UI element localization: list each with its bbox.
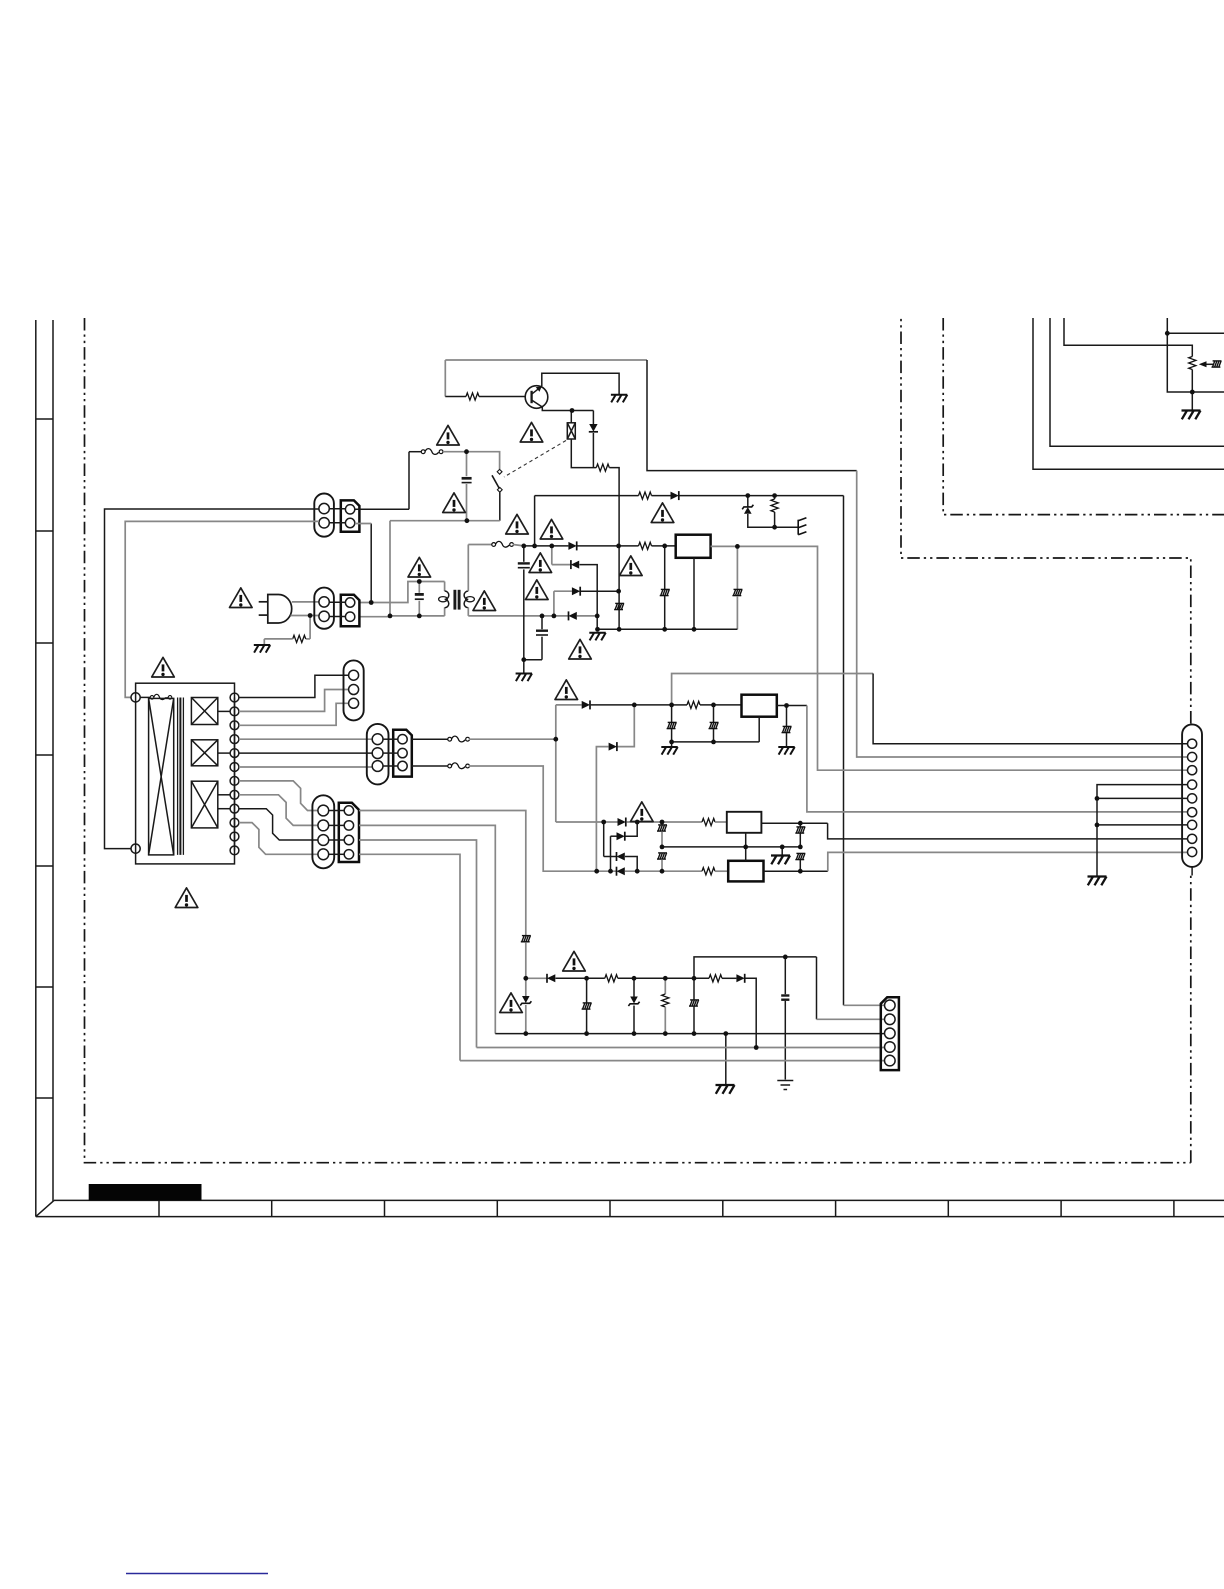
wire D3 to node [591, 704, 672, 706]
CN5 pin4 out run [359, 854, 460, 1060]
resistor RV1 top lead [774, 496, 776, 499]
T1 pin6 wire to CN4 [239, 766, 372, 768]
left border tick 6 [36, 986, 53, 988]
bypass drop 2 [713, 705, 715, 722]
T1 pin1 wire to CN3 [239, 675, 349, 697]
run to CN7 pin2 [857, 471, 1188, 757]
IC2 (regulator box) [742, 695, 777, 717]
det row wire a [526, 977, 547, 979]
CN7 bottom stub [1191, 867, 1193, 876]
bus wire to right page edge 2 [1050, 318, 1224, 446]
connector CN2 plug (2-pin oval) [314, 588, 334, 629]
T1 pin3 wire to CN3 [239, 703, 349, 725]
row1 wire b [627, 821, 703, 823]
wire into bottom connector pin1 [844, 1004, 885, 1006]
bypass chain top [661, 822, 663, 825]
x800 chain top [799, 823, 801, 826]
connector CN1 header [341, 500, 360, 531]
second boundary dash-dot [943, 318, 1224, 515]
CN5 pin 2 [318, 820, 329, 831]
junction dot [663, 1031, 668, 1036]
fuse F4 [448, 763, 470, 769]
IC1 ground lead [693, 558, 695, 630]
T1 pin 8 [230, 790, 239, 799]
AC live wire to choke [359, 582, 444, 603]
junction dot [616, 544, 621, 549]
wire to pin2 bottom [816, 957, 818, 1019]
H2 bottom lead [586, 1010, 588, 1034]
diode D13 [589, 424, 598, 432]
CN5 pin3 out run [359, 840, 477, 1048]
junction dot [711, 740, 716, 745]
AC bottom link wire [390, 520, 500, 522]
power switch S1 [492, 469, 502, 492]
junction dot [632, 1031, 637, 1036]
junction dot [745, 493, 750, 498]
wire to bridge node [609, 468, 619, 546]
transformer T1 outline [136, 683, 235, 864]
VR1 wiper arrowhead [1199, 361, 1207, 367]
warning symbol 4 [506, 514, 529, 534]
bypass drop lower [736, 596, 738, 629]
connector CN3 (3-pin oval) [344, 660, 364, 720]
CN6 pin 5 [885, 1055, 896, 1066]
switch-relay mechanical link (dashed) [504, 441, 566, 478]
junction dot [692, 1031, 697, 1036]
choke right top lead [467, 545, 469, 592]
row3 wire right [581, 590, 619, 592]
fuse lead [140, 696, 152, 698]
wire IC1 out to pin3 drop [737, 546, 1187, 770]
junction dot [798, 821, 803, 826]
C5 bottom lead [784, 1001, 786, 1080]
hatch cap H13 [614, 603, 624, 609]
CN4 pin1 out wire [412, 738, 449, 740]
junction dot [1095, 823, 1100, 828]
CN4 link stub 1 [383, 738, 398, 740]
link wire to switch circuit [389, 521, 391, 616]
ground (bottom bus) [716, 1085, 735, 1094]
bus ground stub [725, 1034, 727, 1085]
CN1 header pin 1 [345, 505, 354, 514]
warning symbol 19 [500, 993, 523, 1013]
CN5 pin2 out run [359, 825, 495, 1033]
hatch cap H6 [667, 722, 677, 728]
junction dot [601, 820, 606, 825]
bleeder wire to ground [264, 638, 292, 640]
junction dot [540, 614, 545, 619]
junction dot [692, 976, 697, 981]
wire rectified bus to R3 [535, 495, 639, 497]
left border tick 4 [36, 754, 53, 756]
junction dot [595, 627, 600, 632]
junction dot [552, 614, 557, 619]
H2 top lead [586, 978, 588, 1002]
junction dot [523, 976, 528, 981]
junction dot [521, 544, 526, 549]
bridge tap down [551, 546, 553, 565]
H3 top lead [693, 978, 695, 999]
link wire to upper header [370, 524, 372, 603]
wire coil to resistor [571, 439, 596, 468]
S3 tap stub 2 [218, 808, 230, 810]
junction dot [783, 955, 788, 960]
junction dot [417, 614, 422, 619]
IC2 out to pin6 run [807, 706, 1188, 812]
thermal fuse squiggle [150, 694, 172, 699]
CN5 pin 1 [318, 805, 329, 816]
relay coil (box with X) [567, 423, 575, 439]
T1 pin 5 [230, 749, 239, 758]
ground (emitter) [611, 395, 627, 403]
CN3 pin 3 [349, 698, 359, 708]
bus wire to thermistor [1064, 318, 1192, 357]
CN2 pin 2 [319, 611, 329, 621]
CN5 pin1 run lower [525, 942, 527, 978]
CN5 header pin 1 [344, 806, 353, 815]
T1 pin 9 [230, 804, 239, 813]
bottom gray wire pin4 [477, 1047, 885, 1049]
CN4 link stub 2 [383, 752, 398, 754]
wire node branch vertical [1167, 318, 1224, 392]
row3 right link [625, 857, 637, 872]
left border tick 3 [36, 642, 53, 644]
junction dot [388, 614, 393, 619]
junction dot [570, 408, 575, 413]
T1 pin 4 [230, 735, 239, 744]
CN5 link stub 1 [329, 810, 345, 812]
warning symbol 17 [631, 802, 654, 822]
zener diode Z2 [520, 996, 531, 1006]
junction dot [635, 820, 640, 825]
bypass drop 1 [671, 705, 673, 722]
x800 chain mid [799, 834, 801, 847]
diode D11 [617, 867, 625, 876]
chassis boundary dash-dot right lower [1190, 876, 1192, 1163]
earth ground [777, 1081, 793, 1090]
warning symbol 18 [563, 951, 586, 971]
IC3 out to pin8 [828, 823, 1188, 839]
mains wire W1 [105, 509, 320, 849]
RV3 bottom lead [664, 1007, 666, 1034]
left border tick 5 [36, 865, 53, 867]
CN1 wire up to fuse row [408, 452, 410, 510]
bleeder drop [309, 616, 311, 639]
CN1 pin 2 [319, 518, 329, 528]
CN7 pin 1 [1188, 739, 1197, 748]
T1 pin7 wire to CN5 [239, 781, 318, 811]
IC1 out bypass drop [736, 546, 738, 589]
ground stub [523, 660, 525, 674]
warning symbol 14 [555, 680, 578, 700]
CN7 pin7 wire [1097, 824, 1188, 826]
diode D4 [618, 818, 626, 827]
T1 pin2 wire to CN3 [239, 690, 349, 712]
left border tick 1 [36, 418, 53, 420]
rectifier feed vertical [555, 705, 557, 822]
CN4 pin 2 [372, 748, 383, 759]
diode D9 [569, 611, 577, 620]
junction dot [660, 845, 665, 850]
junction dot [523, 1031, 528, 1036]
gnd stub [671, 742, 673, 747]
mid ground line [662, 846, 800, 848]
warning symbol 3 [443, 493, 466, 513]
bottom strip divider 9 [1060, 1200, 1062, 1216]
hatch cap H7 [709, 722, 719, 728]
warning symbol 6 [408, 557, 431, 577]
D7 output drop [745, 978, 756, 1047]
long vertical wire to CN bottom pin1 [843, 496, 845, 1006]
diode D7 [736, 974, 744, 983]
bypass drop 1 lower [671, 729, 673, 742]
bias wire drop [444, 360, 446, 397]
resistor RV1 [771, 499, 778, 512]
resistor R8 [605, 975, 618, 982]
left border tick 7 [36, 1097, 53, 1099]
bias wire top [445, 359, 647, 361]
junction dot [553, 737, 558, 742]
ground (cluster) [771, 856, 790, 865]
ground (IC2 bypass) [661, 747, 677, 755]
warning symbol 7 [529, 553, 552, 573]
junction dot [660, 869, 665, 874]
warning symbol 2 [520, 422, 543, 442]
Z2 top lead [525, 978, 527, 996]
CN2 header pin 1 [345, 598, 354, 607]
emitter wire to ground [542, 373, 619, 395]
connector CN5 header [339, 803, 359, 862]
zener bottom wire [748, 514, 798, 527]
ground (IC2 output) [778, 747, 794, 755]
bypass drop 3 lower [786, 733, 788, 741]
wire R4 to IC1 [652, 545, 676, 547]
row4 wire [597, 870, 616, 872]
wire F3 to node [469, 738, 556, 740]
fuse F1 [421, 449, 443, 455]
T1 pin5 wire to CN4 [239, 752, 372, 754]
wire fuse to bridge [513, 545, 524, 546]
T1 core [178, 698, 184, 855]
CN5 link stub 4 [329, 853, 345, 855]
CN5 pin 4 [318, 849, 329, 860]
T1 secondary winding S3 [191, 781, 217, 828]
connector CN4 plug (3-pin oval) [367, 724, 389, 785]
AC neutral wire [359, 615, 444, 618]
page left inner border [52, 320, 54, 1201]
zener top lead [747, 496, 749, 507]
CN1 link stub 1 [329, 508, 345, 510]
junction dot [584, 1031, 589, 1036]
CN4 link stub 3 [383, 765, 398, 767]
fuse F3 [448, 736, 470, 742]
T1 primary winding [149, 698, 174, 855]
junction dot [669, 740, 674, 745]
X-cap C1 bottom lead [418, 601, 420, 616]
T1 pin 11 [230, 832, 239, 841]
wire R3 to D6 [652, 495, 671, 497]
IC2 out wire [777, 705, 807, 707]
ground (cold bus) [589, 633, 605, 641]
connector CN4 header [393, 730, 412, 777]
CN3 pin 2 [349, 685, 359, 695]
wire to relay coil [570, 411, 572, 423]
resistor R4 [639, 542, 652, 549]
capacitor C5 [781, 996, 789, 1000]
bottom strip divider 6 [722, 1200, 724, 1216]
S1 tap stub [218, 710, 230, 712]
T1 primary terminal (top) [131, 693, 140, 702]
bus wire to right page edge 1 [1033, 318, 1224, 469]
CN4 pin 1 [372, 734, 383, 745]
ground (CN7) [1088, 877, 1107, 886]
junction dot [616, 589, 621, 594]
S2 tap stub [218, 752, 230, 754]
warning symbol 16 [175, 888, 198, 908]
CN5 header pin 3 [344, 835, 353, 844]
row4 wire right [577, 615, 597, 617]
IC4 out wire [764, 870, 828, 872]
gnd stub [781, 847, 783, 856]
wire R6 to IC3 [715, 821, 727, 823]
H3 bottom lead [693, 1007, 695, 1034]
junction dot [660, 820, 665, 825]
Z3 bottom lead [633, 1006, 635, 1034]
bypass drop 3 [786, 706, 788, 727]
junction dot [595, 614, 600, 619]
junction dot [417, 579, 422, 584]
row1 wire [556, 821, 618, 823]
CN3 pin 1 [349, 670, 359, 680]
CN2 link stub 1 [329, 601, 345, 603]
connector CN7 (9-pin oval) [1182, 724, 1202, 867]
junction dot [754, 1045, 759, 1050]
ground (primary) [516, 674, 532, 682]
ground (AC bleeder) [254, 645, 270, 653]
hatch cap H9 [657, 825, 667, 831]
Z2 bottom lead [525, 1005, 527, 1034]
IC1 output wire [711, 545, 738, 547]
junction dot [532, 544, 537, 549]
mains wire W2 [125, 521, 319, 697]
diode to node wire [592, 433, 594, 468]
hatch cap H1 [521, 936, 531, 942]
junction dot [1190, 390, 1195, 395]
row3 drop [553, 591, 555, 616]
wire header to fuse [409, 451, 423, 453]
feedback upper wire [694, 957, 817, 978]
resistor R7 [293, 635, 306, 642]
bypass chain mid1 [661, 832, 663, 847]
wire F4 long run [469, 766, 597, 871]
C3 top lead [523, 546, 525, 562]
CN6 pin 3 [885, 1028, 896, 1039]
wire to page edge [1167, 332, 1224, 334]
IC2 gnd lead [758, 717, 760, 742]
T1 pin 7 [230, 777, 239, 786]
CN7 pin 8 [1188, 834, 1197, 843]
junction dot [798, 845, 803, 850]
warning symbol 11 [651, 503, 674, 523]
CN5 link stub 2 [329, 824, 345, 826]
IC4 out to pin9 [828, 852, 1188, 871]
bridge tap vertical [534, 496, 536, 546]
CN4 pin3 out wire [412, 765, 449, 767]
junction dot [711, 703, 716, 708]
bottom strip divider 3 [384, 1200, 386, 1216]
CN1 header pin2 wire [355, 523, 371, 525]
wire into CN6 pin2 [817, 1018, 885, 1020]
T1 pin 6 [230, 763, 239, 772]
hatch cap H10 [657, 853, 667, 859]
AC plug [259, 595, 292, 624]
wire R5 to IC2 [700, 704, 742, 706]
CN7 pin 6 [1188, 808, 1197, 817]
CN7 pin 9 [1188, 847, 1197, 856]
wire to base resistor [445, 396, 466, 398]
T1 pin10 wire to CN5 [239, 823, 318, 855]
row2 wire [552, 564, 571, 566]
chassis boundary dash-dot (main) [85, 318, 1191, 1163]
variable resistor VR1 [1189, 357, 1196, 370]
bottom strip divider 1 [158, 1200, 160, 1216]
CN7 pin 4 [1188, 780, 1197, 789]
row3 wire [604, 856, 616, 858]
X-cap bottom lead [466, 484, 468, 521]
T1 pin9 wire to CN5 [239, 809, 318, 840]
wire choke to fuse F2 [468, 544, 493, 546]
CN5 header pin 2 [344, 821, 353, 830]
bridge node vertical [618, 546, 620, 629]
junction dot [784, 703, 789, 708]
resistor R5 [687, 701, 700, 708]
resistor R3 [639, 492, 652, 499]
junction dot [635, 869, 640, 874]
wire node to R5 [672, 704, 687, 706]
row2 to node [579, 565, 597, 630]
CN7 pin 2 [1188, 752, 1197, 761]
warning symbol 12 [230, 588, 253, 608]
wire to flyback diode [592, 411, 594, 425]
CN7 pin 3 [1188, 766, 1197, 775]
wire D1 to R4 [577, 545, 638, 547]
ground link wire [672, 741, 760, 743]
warning symbol 1 [437, 425, 460, 445]
resistor RV1 bottom lead [774, 512, 776, 527]
C5 top lead [784, 957, 786, 994]
bottom bus [495, 1033, 884, 1035]
CN2 link stub 2 [329, 616, 345, 618]
wire bias drop [647, 360, 857, 471]
CN1 link stub 2 [329, 522, 345, 524]
C3/C4 join wire [524, 659, 542, 661]
diode D1 [568, 541, 576, 550]
warning symbol 9 [473, 591, 496, 611]
junction dot [743, 845, 748, 850]
junction dot [662, 627, 667, 632]
gnd stub [786, 741, 788, 747]
bypass chain mid2 [661, 860, 663, 872]
branch to lower vertical [596, 747, 608, 872]
wire to IC4 [715, 870, 728, 872]
T1 secondary winding S1 [191, 698, 217, 725]
hatch cap H11 [795, 827, 805, 833]
plug live wire [292, 601, 319, 603]
title block black bar [89, 1184, 202, 1200]
CN6 pin 4 [885, 1042, 896, 1053]
hatch cap H4 [660, 589, 670, 595]
T1 pin chain [234, 698, 236, 851]
